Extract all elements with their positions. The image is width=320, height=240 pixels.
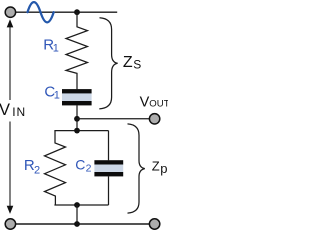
Vin arrowhead up xyxy=(7,19,14,27)
svg-text:p: p xyxy=(160,161,167,176)
resistor R2 xyxy=(45,131,66,205)
svg-text:S: S xyxy=(133,58,141,72)
wire center to bottom rail xyxy=(76,205,78,224)
svg-text:IN: IN xyxy=(12,105,26,119)
terminal node Vout xyxy=(149,114,159,124)
node junction bottom xyxy=(74,221,80,227)
svg-text:1: 1 xyxy=(54,90,60,102)
Vin arrowhead down xyxy=(7,206,14,214)
svg-text:2: 2 xyxy=(86,163,92,175)
node junction Vout xyxy=(74,116,80,122)
wire C1 to mid rail xyxy=(76,105,78,130)
node junction parallel bottom xyxy=(74,202,80,208)
svg-text:Z: Z xyxy=(152,158,160,173)
wire C2 branch lower xyxy=(108,176,110,205)
wire parallel top rail xyxy=(54,130,108,132)
svg-text:V: V xyxy=(140,94,150,110)
wire C2 branch upper xyxy=(108,131,110,161)
AC source sine wave xyxy=(28,2,54,22)
svg-text:C: C xyxy=(75,156,85,172)
svg-text:Z: Z xyxy=(123,54,133,71)
node junction parallel top xyxy=(74,128,80,134)
node junction top xyxy=(74,9,80,15)
svg-text:V: V xyxy=(0,101,10,119)
terminal node bottom-right xyxy=(149,219,159,229)
svg-text:OUT: OUT xyxy=(149,98,168,109)
svg-text:2: 2 xyxy=(34,164,40,176)
wire bottom rail xyxy=(11,223,155,225)
terminal node bottom-left xyxy=(5,219,15,229)
terminal node top-left xyxy=(5,7,15,17)
capacitor C2 xyxy=(94,160,123,176)
capacitor C1 xyxy=(62,89,92,105)
wire to Vout xyxy=(77,118,149,120)
wire top rail xyxy=(11,11,118,13)
brace Zs xyxy=(99,18,117,109)
brace Zp xyxy=(128,124,145,213)
svg-text:1: 1 xyxy=(53,43,59,55)
Vin arrow shaft upper xyxy=(9,27,11,101)
wire parallel bottom rail xyxy=(54,204,108,206)
Vin arrow shaft lower xyxy=(9,122,11,207)
resistor R1 xyxy=(66,12,88,89)
